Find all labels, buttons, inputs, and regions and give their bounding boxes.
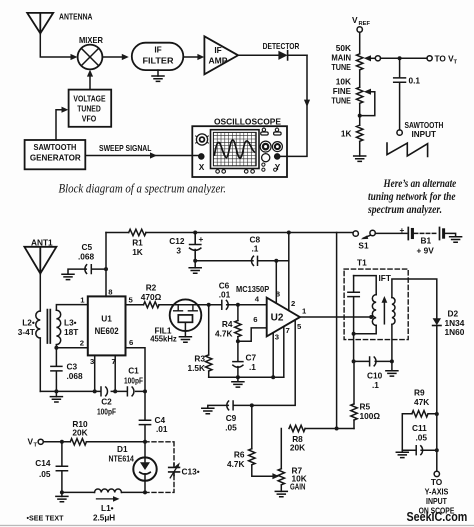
svg-text:C9: C9 — [226, 413, 237, 423]
wire battery to ground — [445, 233, 456, 236]
svg-text:Y-AXIS: Y-AXIS — [425, 487, 449, 497]
mixer M1 — [78, 45, 103, 70]
transformer T1 dashed enclosure — [344, 269, 408, 340]
ground wire below U2 — [209, 376, 284, 378]
scope knob B — [272, 142, 282, 152]
svg-text:R1: R1 — [132, 238, 143, 248]
L1 slug arrow — [97, 498, 116, 500]
svg-text:B1: B1 — [421, 236, 432, 246]
T1 primary loop top — [354, 276, 377, 295]
svg-text:4: 4 — [255, 295, 260, 304]
svg-text:GENERATOR: GENERATOR — [30, 152, 81, 162]
svg-text:tuning network for the: tuning network for the — [368, 190, 456, 203]
ground below secondary — [386, 371, 398, 376]
scope waveform trace — [215, 140, 255, 158]
bottom rail under U1 — [40, 390, 145, 392]
coil L2 — [36, 311, 40, 338]
svg-text:5: 5 — [297, 322, 302, 331]
bottom wire with L1 — [62, 491, 145, 493]
resistor R10 — [70, 439, 86, 445]
ground for C9 — [202, 408, 214, 413]
wire mixer to IF filter — [102, 56, 124, 58]
T1 secondary coil — [392, 298, 395, 325]
resistor R4 — [237, 305, 239, 321]
wire ANT1 down to L2 — [39, 274, 41, 312]
svg-text:.05: .05 — [39, 469, 51, 479]
IF amp triangle — [204, 36, 238, 74]
U1 pin 5 wire to filter — [126, 304, 222, 306]
svg-text:470Ω: 470Ω — [141, 292, 162, 302]
capacitor C3 — [51, 366, 62, 391]
capacitor C12 (electrolytic) — [190, 233, 201, 261]
svg-text:INPUT: INPUT — [412, 129, 437, 139]
svg-text:1N60: 1N60 — [445, 327, 465, 337]
node primary bottom — [352, 332, 356, 336]
svg-text:.1: .1 — [372, 380, 379, 390]
svg-text:6: 6 — [129, 338, 133, 347]
svg-text:50K: 50K — [336, 43, 351, 53]
oscilloscope box — [192, 126, 287, 177]
U1 pin 6 wire — [126, 348, 146, 392]
VFO box — [69, 90, 112, 127]
wire rail down to U2 pin 2 — [288, 233, 290, 311]
node C1/C4/pin6 — [143, 389, 147, 393]
scope right panel small circles + sliders — [262, 128, 265, 131]
R7 wiper arrow — [272, 473, 279, 479]
svg-text:47K: 47K — [414, 397, 429, 407]
wire antenna to mixer — [40, 33, 73, 57]
svg-text:D1: D1 — [117, 444, 128, 454]
svg-text:.01: .01 — [219, 290, 231, 300]
T1 primary coil — [372, 295, 376, 326]
svg-text:4.7K: 4.7K — [215, 329, 233, 339]
resistor R2 — [144, 302, 160, 308]
node C8 wire / U2 pin 8 — [274, 259, 278, 263]
capacitor C2 — [101, 387, 107, 396]
node R5/R8/rail — [335, 427, 339, 431]
secondary top wire to D2 — [392, 279, 437, 318]
svg-text:T: T — [34, 443, 38, 449]
IF filter block — [132, 43, 184, 70]
svg-text:NE602: NE602 — [95, 326, 119, 337]
node pin7 — [113, 389, 117, 393]
capacitor C11 — [416, 446, 437, 455]
detector diode — [278, 51, 287, 60]
dashed box D1/C13 — [145, 442, 174, 493]
wire L3 top to U1 pin 1 — [56, 305, 87, 311]
scope X jack — [199, 154, 204, 159]
svg-text:.05: .05 — [416, 433, 428, 443]
U2 pin 8 wire — [275, 261, 277, 303]
svg-text:2: 2 — [291, 299, 295, 308]
node C9 / R6 / pin5 — [250, 403, 254, 407]
ground for C11 — [402, 450, 416, 452]
svg-text:MAIN: MAIN — [331, 53, 351, 63]
svg-text:C10: C10 — [367, 371, 383, 381]
node C12 bottom — [193, 259, 197, 263]
svg-text:.05: .05 — [225, 423, 237, 433]
svg-text:1K: 1K — [132, 247, 143, 257]
50K wiper — [364, 55, 371, 61]
diode D2 — [433, 318, 441, 325]
node FIL1 out / R3 — [207, 303, 211, 307]
svg-text:TUNE: TUNE — [331, 62, 351, 72]
resistor R6 — [251, 405, 253, 448]
node pin3 — [93, 389, 97, 393]
svg-text:C3: C3 — [67, 362, 78, 372]
svg-text:3: 3 — [90, 357, 94, 366]
svg-text:S1: S1 — [358, 241, 369, 251]
svg-text:5: 5 — [129, 296, 134, 305]
wire filter to IF amp — [183, 56, 200, 58]
T1 internal capacitor — [348, 276, 359, 334]
svg-text:TO: TO — [431, 477, 443, 487]
wire between pots — [359, 70, 361, 87]
antenna (block diagram) — [27, 13, 53, 33]
svg-text:+ 9V: + 9V — [417, 246, 435, 256]
svg-text:+: + — [199, 234, 204, 244]
capacitor 0.1 (tuning net) — [394, 58, 406, 130]
capacitor C8 — [252, 256, 289, 265]
VT terminal — [38, 439, 43, 444]
svg-text:10K: 10K — [336, 77, 351, 87]
node R4 bottom / pin6 / C7 — [236, 339, 240, 343]
capacitor C9 — [208, 401, 233, 410]
svg-text:1: 1 — [302, 307, 307, 316]
sawtooth input terminal — [397, 130, 402, 135]
capacitor C14 — [56, 442, 67, 493]
U1 NE602 — [88, 296, 126, 355]
svg-text:INPUT: INPUT — [426, 496, 447, 506]
svg-text:100pF: 100pF — [97, 407, 116, 417]
node secondary bottom / C10 — [390, 359, 394, 363]
svg-text:Here’s an alternate: Here’s an alternate — [383, 177, 456, 190]
svg-text:V: V — [352, 15, 358, 25]
svg-text:MIXER: MIXER — [79, 35, 103, 45]
trimmer capacitor C13 — [169, 464, 180, 476]
node rail/U2 supply drop — [287, 231, 291, 235]
svg-text:GAIN: GAIN — [290, 482, 305, 492]
potentiometer 50K MAIN TUNE — [357, 54, 363, 70]
svg-text:D2: D2 — [448, 309, 459, 319]
node L3 bottom — [54, 346, 58, 350]
svg-text:455kHz: 455kHz — [150, 333, 177, 343]
svg-text:OSCILLOSCOPE: OSCILLOSCOPE — [214, 117, 281, 127]
ground for battery — [450, 237, 462, 242]
resistor R5 — [353, 420, 355, 428]
svg-text:IF: IF — [214, 45, 221, 55]
svg-text:ANTENNA: ANTENNA — [59, 12, 93, 22]
ground below C12 — [194, 261, 196, 268]
svg-text:C14: C14 — [35, 458, 51, 468]
switch S1 — [353, 231, 358, 236]
capacitor C1 — [127, 387, 133, 396]
U2 pin 5 wire — [233, 320, 295, 406]
sawtooth generator box — [25, 140, 86, 169]
svg-text:.068: .068 — [67, 371, 84, 381]
svg-text:IFT: IFT — [379, 273, 391, 283]
node C10 left — [352, 359, 356, 363]
svg-text:L2•: L2• — [22, 318, 35, 328]
node pin3/pin7 junction — [271, 375, 275, 379]
capacitor C7 — [233, 341, 243, 377]
U2 pin 3 wire — [272, 333, 274, 378]
node C7 bottom — [236, 375, 240, 379]
svg-text:ANT1: ANT1 — [31, 238, 53, 248]
svg-text:C13•: C13• — [182, 467, 200, 477]
svg-text:R4: R4 — [222, 319, 233, 329]
svg-text:.1: .1 — [252, 244, 259, 254]
svg-text:AMP: AMP — [209, 56, 228, 66]
svg-text:100Ω: 100Ω — [360, 411, 381, 421]
node T1 tap — [369, 315, 373, 319]
wire primary bottom to C10 — [354, 334, 392, 362]
svg-text:.01: .01 — [156, 424, 168, 434]
svg-text:R3: R3 — [194, 354, 205, 364]
svg-text:U1: U1 — [101, 314, 112, 324]
svg-text:R9: R9 — [414, 388, 425, 398]
scope left knob — [196, 134, 207, 145]
svg-text:C1: C1 — [128, 366, 139, 376]
svg-text:TUNE: TUNE — [331, 96, 351, 106]
transformer core L2/L3 — [47, 310, 50, 343]
resistor R8 — [289, 425, 305, 431]
svg-text:VFO: VFO — [82, 113, 97, 123]
svg-text:NTE614: NTE614 — [109, 454, 135, 464]
svg-text:7: 7 — [112, 357, 116, 366]
bottom scan line — [0, 525, 474, 526]
svg-text:SWEEP SIGNAL: SWEEP SIGNAL — [99, 143, 151, 153]
svg-text:2.5μH: 2.5μH — [93, 513, 115, 523]
resistor R9 — [412, 411, 428, 417]
svg-text:C7: C7 — [246, 353, 257, 363]
svg-text:C5: C5 — [82, 242, 93, 252]
svg-text:IF: IF — [154, 45, 161, 55]
node C3 bottom — [54, 389, 58, 393]
ceramic filter FIL1 — [170, 299, 202, 331]
svg-text:MC1350P: MC1350P — [236, 284, 270, 294]
potentiometer R7 10K GAIN — [280, 429, 282, 469]
wire D2 to output — [436, 326, 438, 472]
svg-text:C2: C2 — [101, 397, 112, 407]
U2 pin 7 wire — [283, 327, 285, 378]
svg-text:•SEE TEXT: •SEE TEXT — [27, 514, 64, 523]
wire detector down to scope Y — [280, 55, 307, 156]
svg-text:100pF: 100pF — [124, 376, 143, 386]
scope knob A — [260, 141, 271, 152]
node C5 / pin8 — [104, 267, 108, 271]
U1 pin 3 wire — [94, 355, 96, 391]
dashed wire to battery 2 — [414, 232, 438, 234]
U1 pin 7 wire — [114, 355, 116, 391]
svg-text:REF: REF — [359, 21, 371, 27]
svg-text:18T: 18T — [64, 327, 78, 337]
svg-text:L3•: L3• — [64, 318, 77, 328]
resistor 1K — [357, 125, 363, 141]
svg-text:U2: U2 — [271, 313, 284, 324]
antenna ANT1 — [24, 247, 56, 274]
svg-text:X: X — [199, 162, 205, 172]
resistor R3 — [208, 305, 210, 377]
svg-text:TUNED: TUNED — [77, 103, 101, 113]
inductor L1 — [95, 489, 122, 492]
node VT/C14 — [60, 440, 64, 444]
wire S1 to battery — [375, 232, 406, 234]
node C14 bottom / ground — [60, 490, 64, 494]
wire +9V rail down to R5/R8 node — [336, 233, 338, 429]
svg-text:Y: Y — [275, 162, 281, 172]
svg-text:8: 8 — [108, 288, 113, 297]
sweep signal wire to scope X — [85, 155, 199, 157]
svg-text:6: 6 — [253, 315, 257, 324]
capacitor C4 — [139, 391, 150, 441]
svg-text:C11: C11 — [412, 423, 427, 433]
svg-text:+: + — [400, 225, 405, 235]
10K wiper loop — [364, 89, 371, 95]
svg-text:20K: 20K — [72, 428, 87, 438]
wire L3 bottom / U1 pin 2 — [56, 345, 87, 367]
node D1 top — [143, 440, 147, 444]
scope Y jack — [275, 154, 280, 159]
wire sawtooth gen to VFO — [56, 110, 65, 140]
coil L3 — [56, 310, 60, 344]
svg-text:R6: R6 — [234, 450, 245, 460]
capacitor C5 — [68, 265, 106, 275]
coupling arrow — [383, 300, 385, 324]
battery cell 2 — [440, 228, 444, 240]
svg-text:Block diagram of a spectrum an: Block diagram of a spectrum analyzer. — [59, 182, 227, 196]
wire VFO to mixer — [89, 74, 91, 90]
output terminal to scope — [434, 471, 439, 476]
svg-text:R2: R2 — [146, 283, 157, 293]
svg-text:1.5K: 1.5K — [187, 363, 205, 373]
ground symbol below C7 — [237, 377, 239, 382]
svg-text:TO V: TO V — [435, 54, 455, 64]
scope tiny circles — [262, 163, 265, 166]
wire L2 bottom to bottom rail — [39, 338, 41, 391]
svg-text:.068: .068 — [78, 252, 95, 262]
scope circle C — [262, 154, 270, 162]
svg-text:R5: R5 — [360, 402, 371, 412]
battery B1 — [408, 228, 412, 240]
svg-text:.1: .1 — [249, 362, 256, 372]
capacitor C10 — [370, 357, 376, 366]
svg-text:T: T — [454, 60, 458, 66]
scope screen — [211, 130, 260, 169]
svg-text:1K: 1K — [341, 129, 352, 139]
node C11/output — [435, 448, 439, 452]
ground below 1K — [359, 142, 361, 156]
svg-text:DETECTOR: DETECTOR — [263, 41, 300, 51]
capacitor C6 — [222, 300, 267, 309]
node D2/R9 — [435, 412, 439, 416]
svg-text:1: 1 — [80, 296, 85, 305]
potentiometer 10K FINE TUNE — [357, 87, 363, 103]
wire amp to detector corner — [238, 54, 307, 56]
top supply rail — [106, 232, 353, 234]
svg-text:SeekIC.com: SeekIC.com — [407, 509, 468, 524]
svg-text:0.1: 0.1 — [409, 76, 421, 86]
sawtooth waveform symbol — [387, 143, 428, 156]
secondary bottom wire — [391, 324, 393, 370]
svg-text:3: 3 — [275, 333, 279, 342]
U2 pin 6 wire — [238, 328, 267, 341]
node D1 bottom — [143, 490, 147, 494]
svg-text:spectrum analyzer.: spectrum analyzer. — [367, 203, 442, 216]
ground for C5 — [62, 274, 74, 279]
svg-text:20K: 20K — [290, 443, 305, 453]
svg-text:2: 2 — [80, 339, 84, 348]
Vref terminal — [357, 27, 362, 32]
svg-text:FINE: FINE — [333, 86, 352, 96]
ground under IF filter — [157, 70, 159, 76]
svg-text:4.7K: 4.7K — [227, 459, 245, 469]
svg-text:7: 7 — [286, 326, 290, 335]
svg-text:3-4T: 3-4T — [18, 327, 35, 337]
resistor R1 — [129, 229, 146, 235]
svg-text:3: 3 — [176, 246, 181, 256]
ground below C3 — [55, 391, 57, 396]
varactor diode D1 — [144, 442, 146, 458]
svg-text:FILTER: FILTER — [143, 56, 174, 66]
op-amp U2 MC1350P — [267, 298, 300, 337]
U2 pin 1 output wire — [300, 316, 371, 318]
wire C12 bottom to C8 — [195, 260, 253, 262]
node rail/C12 — [193, 231, 197, 235]
svg-text:T1: T1 — [357, 258, 367, 268]
svg-text:SAWTOOTH: SAWTOOTH — [34, 142, 77, 152]
node C6 / R4 — [236, 303, 240, 307]
svg-text:8: 8 — [276, 290, 281, 299]
svg-text:C12: C12 — [169, 236, 185, 246]
U1 pin 8 wire — [105, 233, 107, 297]
svg-text:VOLTAGE: VOLTAGE — [73, 94, 106, 104]
svg-text:L1•: L1• — [101, 503, 114, 513]
